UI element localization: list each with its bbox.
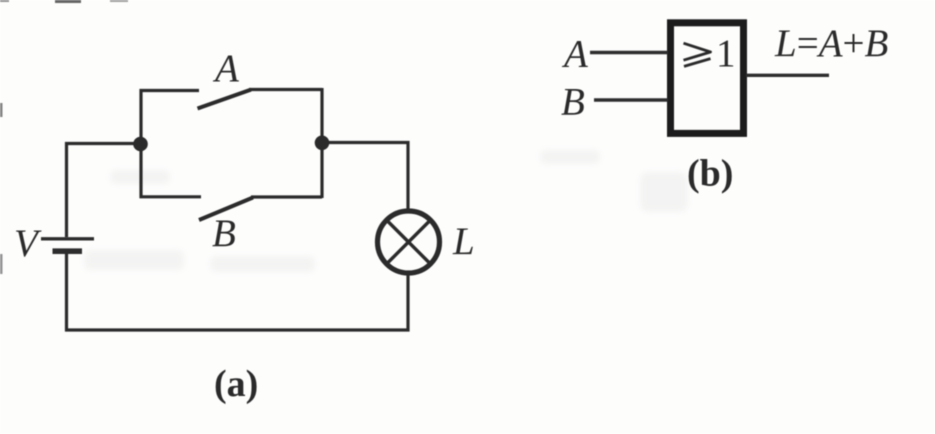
wire bottom branch left horizontal (fixed contact of switch B) — [140, 195, 202, 198]
wire left rail bottom (from battery) — [65, 252, 68, 332]
svg-text:L=A+B: L=A+B — [774, 22, 888, 65]
battery V plates — [41, 239, 94, 251]
wire top branch right horizontal — [249, 88, 322, 91]
node junction left — [133, 137, 148, 152]
OR gate U1 box — [671, 23, 744, 134]
OR gate qualifying symbol &#10878;1 — [684, 43, 711, 66]
svg-text:1: 1 — [716, 32, 736, 75]
wire gate input A — [590, 51, 668, 54]
wire middle-right horizontal — [322, 141, 410, 144]
wire bottom branch right horizontal — [251, 195, 322, 198]
svg-text:V: V — [14, 222, 42, 265]
svg-text:(b): (b) — [687, 153, 733, 195]
wire bottom return — [65, 328, 410, 331]
node junction right — [315, 136, 330, 151]
wire bottom branch left vertical — [139, 144, 142, 199]
switch A blade — [198, 90, 252, 109]
svg-text:A: A — [212, 47, 239, 90]
wire right rail top (lamp to middle) — [406, 141, 409, 209]
svg-text:B: B — [561, 81, 585, 124]
switch B blade — [199, 198, 253, 221]
lamp L cross — [387, 221, 430, 264]
wire left rail top (to battery) — [65, 142, 68, 237]
svg-text:A: A — [561, 33, 588, 76]
lamp L circle — [378, 211, 440, 273]
wire top branch left vertical — [139, 89, 142, 144]
wire top branch left horizontal (fixed contact of switch A) — [140, 89, 200, 92]
svg-text:B: B — [212, 212, 236, 255]
wire top branch right vertical — [320, 88, 323, 143]
svg-text:(a): (a) — [214, 363, 258, 405]
svg-text:L: L — [452, 220, 475, 263]
wire bottom branch right vertical — [320, 143, 323, 199]
wire right rail bottom (lamp to bottom) — [406, 274, 409, 332]
wire gate input B — [594, 98, 668, 101]
wire middle-left horizontal — [65, 142, 141, 145]
wire gate output — [746, 74, 829, 77]
